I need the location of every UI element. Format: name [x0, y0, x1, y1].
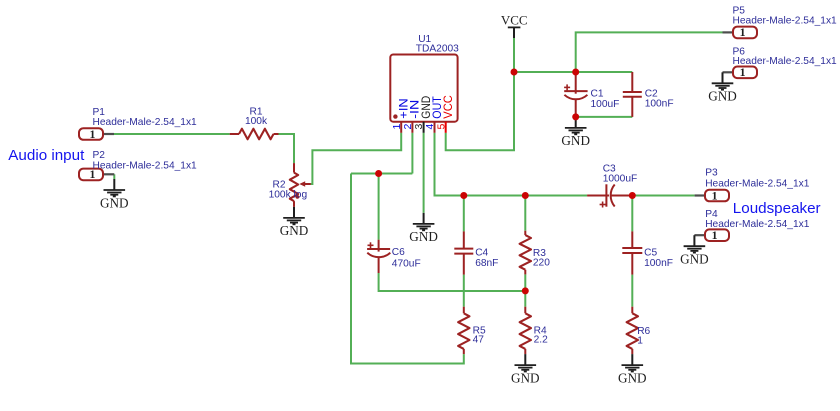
power VCC	[501, 13, 528, 38]
connector P4	[694, 209, 809, 242]
capacitor C3 1000uF	[587, 164, 637, 208]
svg-text:C1: C1	[591, 88, 604, 99]
ground R2	[280, 207, 309, 238]
wire R3 bottom	[524, 274, 526, 291]
wire R2 wiper to U1 pin1 (+IN)	[311, 133, 402, 184]
wire P2 to ground	[113, 174, 115, 179]
svg-text:VCC: VCC	[441, 95, 455, 119]
svg-text:Header-Male-2.54_1x1: Header-Male-2.54_1x1	[93, 117, 198, 128]
wire R3 top	[524, 196, 526, 231]
connector P3	[695, 168, 810, 203]
resistor R4 2.2	[520, 307, 548, 354]
wire U1 pin5 to VCC rail	[446, 38, 514, 150]
ground P6	[708, 72, 737, 103]
svg-text:GND: GND	[100, 195, 129, 210]
svg-text:GND: GND	[708, 89, 737, 104]
wire U1 pin3 to ground	[423, 133, 425, 213]
wire P1 to R1	[114, 133, 230, 135]
ground C1	[561, 117, 590, 148]
svg-text:1: 1	[637, 335, 643, 346]
resistor R6 1	[627, 307, 651, 354]
svg-text:100k: 100k	[245, 116, 268, 127]
wire OUT net: pin4 down and right to C3	[435, 133, 588, 196]
svg-text:100uF: 100uF	[591, 99, 620, 110]
node VCC junction	[511, 69, 518, 76]
wire to P5	[576, 32, 723, 72]
wire C4 to R5	[463, 275, 465, 307]
svg-text:GND: GND	[511, 370, 540, 385]
svg-text:VCC: VCC	[501, 13, 528, 28]
node C4 top junction (OUT net)	[460, 192, 467, 199]
U1 pin 3 stub	[423, 122, 425, 133]
svg-text:470uF: 470uF	[392, 259, 421, 270]
node C1 top junction	[572, 69, 579, 76]
wire C3 to P3	[632, 195, 694, 197]
svg-text:220: 220	[533, 257, 550, 268]
svg-text:1: 1	[740, 25, 746, 39]
svg-text:1: 1	[712, 188, 718, 202]
svg-text:1000uF: 1000uF	[603, 174, 638, 185]
node C1 bottom junction	[572, 113, 579, 120]
wire C5 to R6	[631, 275, 633, 307]
op-amp U1 TDA2003	[390, 34, 459, 122]
ground U1 pin3	[409, 213, 438, 244]
svg-text:4: 4	[424, 124, 436, 130]
svg-text:C4: C4	[475, 247, 488, 258]
svg-text:Header-Male-2.54_1x1: Header-Male-2.54_1x1	[705, 178, 810, 189]
svg-text:TDA2003: TDA2003	[416, 44, 459, 55]
svg-text:47: 47	[473, 334, 485, 345]
svg-text:1: 1	[740, 65, 746, 79]
connector P1	[79, 107, 197, 141]
wire R4 top	[524, 291, 526, 307]
wire C4 top	[463, 196, 465, 232]
svg-text:100k log: 100k log	[269, 189, 308, 200]
ground R4	[511, 354, 540, 385]
svg-text:100nF: 100nF	[644, 258, 673, 269]
svg-text:GND: GND	[280, 223, 309, 238]
svg-text:1: 1	[391, 124, 403, 130]
svg-text:2: 2	[402, 124, 414, 130]
svg-text:Header-Male-2.54_1x1: Header-Male-2.54_1x1	[705, 219, 810, 230]
connector P6	[723, 46, 838, 79]
capacitor C6 470uF	[367, 240, 421, 273]
svg-text:GND: GND	[680, 252, 709, 267]
connector P2	[79, 150, 197, 181]
wire U1 pin2 down	[411, 133, 413, 174]
node R3 top junction (OUT net)	[522, 192, 529, 199]
svg-text:5: 5	[435, 124, 447, 130]
connector P5	[723, 6, 838, 40]
svg-text:Audio input: Audio input	[8, 147, 85, 164]
capacitor C1 100uF	[564, 72, 619, 117]
svg-text:100nF: 100nF	[645, 99, 674, 110]
svg-text:2.2: 2.2	[534, 334, 548, 345]
wire C5 top	[631, 196, 633, 232]
svg-text:1: 1	[90, 127, 96, 141]
svg-text:P3: P3	[705, 168, 718, 179]
wire C6 top	[378, 174, 380, 240]
ground P4	[680, 235, 709, 266]
svg-text:GND: GND	[409, 229, 438, 244]
svg-text:C2: C2	[645, 88, 658, 99]
wire C1 bottom to C2 bottom	[576, 116, 633, 118]
U1 pin 4 stub	[434, 122, 436, 133]
resistor R5 47	[458, 307, 486, 354]
wire VCC junction to C1	[514, 71, 576, 73]
wire R1 to R2 top	[279, 134, 295, 163]
wire -IN horizontal	[351, 173, 412, 175]
U1 pin 5 stub	[445, 122, 447, 133]
svg-text:Header-Male-2.54_1x1: Header-Male-2.54_1x1	[93, 160, 198, 171]
svg-text:68nF: 68nF	[475, 258, 498, 269]
svg-text:GND: GND	[561, 133, 590, 148]
resistor R3 220	[520, 231, 551, 275]
node C6 top junction (-IN net)	[375, 170, 382, 177]
potentiometer R2 100k log	[269, 163, 311, 207]
node C3 right junction	[629, 192, 636, 199]
capacitor C2 100nF	[623, 72, 674, 117]
U1 pin 1 stub	[400, 122, 402, 133]
svg-text:1: 1	[712, 228, 718, 242]
capacitor C4 68nF	[454, 231, 498, 274]
ground R6	[618, 354, 647, 385]
resistor R1 100k	[230, 106, 279, 139]
wire feedback loop to R5 bottom	[351, 174, 464, 364]
svg-text:Header-Male-2.54_1x1: Header-Male-2.54_1x1	[733, 15, 838, 26]
ground P2	[100, 179, 129, 210]
svg-text:C6: C6	[392, 247, 405, 258]
svg-text:Header-Male-2.54_1x1: Header-Male-2.54_1x1	[733, 56, 838, 67]
U1 pin 2 stub	[411, 122, 413, 133]
svg-text:GND: GND	[618, 370, 647, 385]
node R3/R4/C6 junction	[522, 287, 529, 294]
wire C1 top to C2 top	[576, 71, 633, 73]
capacitor C5 100nF	[622, 231, 673, 274]
svg-text:Loudspeaker: Loudspeaker	[733, 200, 821, 217]
wire C6 bottom to R3/R4 junction	[379, 273, 526, 291]
